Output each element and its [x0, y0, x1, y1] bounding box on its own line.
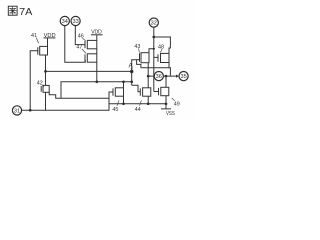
wire transistor 42 drain up to bus M1	[45, 71, 47, 85]
junction transistor 41 drain on bus	[44, 70, 47, 73]
svg-text:31: 31	[14, 109, 20, 115]
terminal 31	[12, 106, 21, 115]
wire from terminal 34 to gate of transistor 47	[65, 26, 86, 62]
wire bus to transistor 46b drain	[141, 67, 169, 69]
power VDD left	[43, 33, 55, 39]
wire between transistor 46 and 47	[96, 49, 98, 54]
svg-text:33: 33	[72, 19, 78, 25]
label 46	[78, 33, 86, 40]
title 図7A	[8, 6, 33, 18]
junction gate wire on bottom rail	[29, 109, 32, 112]
svg-text:42: 42	[37, 81, 43, 87]
wire transistor 42 source down to bottom rail	[45, 92, 47, 110]
wire gate feed transistor 46b	[154, 56, 158, 58]
label 43	[134, 44, 140, 53]
junction at jog to transistor 43	[153, 48, 155, 50]
wire gate feed transistor 44 from node A	[132, 85, 141, 92]
ground VSS	[161, 104, 175, 117]
wire bus M1	[46, 70, 132, 72]
wire transistor 45 drain to bus M2	[123, 82, 125, 88]
wire bottom rail from terminal 31	[22, 92, 113, 110]
transistor Q45	[113, 88, 124, 96]
label 45	[112, 100, 119, 113]
junction at node 32 branch	[152, 36, 155, 39]
wire transistor 44 source to VSS rail	[147, 96, 149, 104]
label 44	[135, 100, 142, 113]
junction transistor 44 drain on output line	[147, 75, 150, 78]
power VDD middle	[91, 30, 103, 36]
junction transistor 44 source on VSS rail	[147, 102, 150, 105]
wire bus M2	[61, 82, 132, 99]
svg-text:45: 45	[112, 107, 118, 113]
wire transistor 45 source to VSS rail	[123, 96, 125, 104]
svg-text:47: 47	[76, 44, 82, 50]
transistor Q47	[85, 54, 97, 62]
wire transistor 41 drain to bus M1	[45, 55, 47, 72]
label 48	[158, 44, 164, 52]
transistor Q41	[38, 46, 48, 55]
wire step from transistor 42 source	[49, 92, 109, 98]
label 47	[76, 44, 86, 53]
wire branch from node 32 to transistor 46b source	[154, 37, 171, 53]
transistor Q43	[140, 53, 150, 63]
svg-text:32: 32	[151, 21, 157, 27]
label 49	[172, 98, 180, 107]
terminal 35	[179, 72, 188, 81]
label 41	[31, 33, 39, 43]
wire jog to transistor 43 source	[149, 49, 154, 53]
wire from terminal 33 to gate of transistor 46	[75, 26, 85, 45]
terminal 33	[71, 16, 80, 25]
wire transistor 41 source to VDD	[47, 38, 49, 47]
arrow into terminal 35	[176, 75, 179, 78]
svg-text:7A: 7A	[19, 7, 33, 18]
transistor Q46	[85, 40, 97, 48]
wire VSS rail	[109, 103, 166, 105]
junction transistor 47 drain on bus M2	[95, 80, 98, 83]
transistor Q44	[140, 88, 151, 96]
wire gate of transistor 41 down to bottom rail	[30, 51, 38, 110]
wire from terminal 32 down right cluster	[153, 27, 155, 91]
svg-text:36: 36	[156, 74, 162, 80]
wire transistor 46b drain to terminal 35	[169, 63, 170, 76]
terminal 36	[154, 72, 163, 81]
wire transistor 48b drain up to output line	[165, 76, 167, 87]
terminal 32	[149, 18, 158, 27]
svg-text:VSS: VSS	[166, 111, 175, 117]
svg-text:49: 49	[174, 101, 180, 107]
wire gate feed transistor 43 from node A	[137, 59, 140, 61]
wire transistor 43 drain down to bus	[147, 63, 149, 68]
transistor Q46b	[158, 53, 169, 62]
wire gate feed transistor 48b	[154, 91, 159, 93]
transistor Q42	[41, 85, 49, 92]
junction node A on bus M2	[130, 80, 133, 83]
wire transistor 46 source to VDD	[96, 35, 98, 41]
transistor Q48b	[159, 87, 169, 95]
svg-text:35: 35	[180, 74, 186, 80]
junction transistor 45 drain on bus M2	[122, 80, 125, 83]
wire node A vertical and staircase to right cluster	[132, 60, 141, 86]
junction transistor 48b drain on output line	[165, 75, 168, 78]
wire transistor 48b source to VSS rail	[165, 96, 167, 104]
wire transistor 47 drain down to bus M2	[96, 62, 98, 82]
svg-text:43: 43	[134, 44, 140, 50]
label 42	[37, 81, 44, 87]
junction node A	[130, 70, 133, 73]
terminal 34	[60, 16, 69, 25]
svg-text:34: 34	[62, 19, 68, 25]
node A	[129, 62, 134, 70]
wire output line to terminals 36 and 35	[148, 75, 176, 77]
wire down to transistor 44 drain	[147, 68, 149, 88]
svg-text:44: 44	[135, 107, 141, 113]
junction transistor 45 source on VSS rail	[122, 102, 125, 105]
junction transistor 48b source on VSS rail	[165, 102, 168, 105]
svg-text:48: 48	[158, 44, 164, 50]
